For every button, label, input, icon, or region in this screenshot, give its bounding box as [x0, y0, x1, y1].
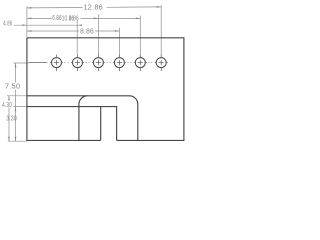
svg-text:8.86: 8.86 — [69, 15, 79, 22]
svg-text:4.86: 4.86 — [3, 21, 12, 28]
svg-text:7.50: 7.50 — [5, 83, 20, 90]
svg-text:3.30: 3.30 — [6, 116, 16, 123]
svg-text:8.86: 8.86 — [80, 29, 94, 36]
svg-text:12.86: 12.86 — [84, 4, 104, 11]
svg-text:4.30: 4.30 — [2, 102, 12, 109]
svg-text:6.86: 6.86 — [52, 15, 62, 22]
